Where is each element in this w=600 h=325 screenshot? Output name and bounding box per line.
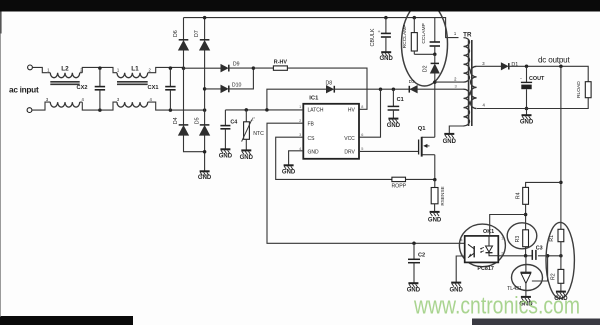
wire ac line2 terminal to L2 xyxy=(32,102,50,110)
svg-text:5: 5 xyxy=(361,147,363,151)
capacitor C1 xyxy=(392,89,394,106)
svg-text:IC1: IC1 xyxy=(309,96,319,102)
svg-text:1: 1 xyxy=(299,105,301,109)
svg-text:GND: GND xyxy=(443,139,457,145)
svg-text:GND: GND xyxy=(428,217,442,223)
diode D6 xyxy=(179,41,189,50)
svg-text:3: 3 xyxy=(117,97,120,102)
svg-text:D2: D2 xyxy=(423,65,429,72)
svg-text:C2: C2 xyxy=(418,252,425,258)
wire VDD pin riser xyxy=(359,89,381,137)
ground C2 xyxy=(408,283,418,287)
svg-text:4: 4 xyxy=(483,102,486,107)
wire line1 to D9 xyxy=(184,67,222,69)
svg-text:FB: FB xyxy=(308,122,315,128)
svg-text:2: 2 xyxy=(299,119,301,123)
svg-text:ROPP: ROPP xyxy=(391,184,406,190)
ground aux winding xyxy=(444,134,454,138)
wire D8 to aux top xyxy=(334,88,463,90)
svg-text:D8: D8 xyxy=(325,80,332,86)
node TL431 ref tap xyxy=(546,254,550,257)
wire aux bottom to ground xyxy=(449,126,463,134)
diode D2 xyxy=(434,54,436,63)
transistor Q1 xyxy=(419,137,435,157)
wire D2 to drain node xyxy=(434,73,436,137)
ground RSENSE xyxy=(430,212,440,216)
svg-text:LATCH: LATCH xyxy=(308,108,324,114)
svg-text:RCCLAMP: RCCLAMP xyxy=(402,24,408,48)
svg-text:3: 3 xyxy=(299,133,301,137)
svg-text:+: + xyxy=(378,30,381,35)
svg-text:3: 3 xyxy=(482,61,485,66)
wire node to R-HV xyxy=(253,67,273,69)
annotation ellipse around R1 R2 xyxy=(546,222,574,298)
node line1 / D6-D4 leg xyxy=(182,66,186,70)
svg-text:RSENSE: RSENSE xyxy=(440,186,445,205)
wire opto LED anode branch xyxy=(490,215,526,235)
resistor RLOAD xyxy=(585,82,591,98)
ground R2 xyxy=(556,292,566,296)
ground U2 xyxy=(521,297,531,301)
diode D8 xyxy=(327,86,334,93)
svg-text:-: - xyxy=(520,76,522,82)
resistor R2 xyxy=(558,269,564,283)
capacitor CX1 xyxy=(169,68,171,87)
wire output positive rail xyxy=(509,66,588,81)
optocoupler phototransistor xyxy=(468,244,474,257)
ground opto emitter xyxy=(451,283,461,287)
svg-text:R4: R4 xyxy=(516,192,522,199)
optocoupler LED light arrows xyxy=(480,247,484,252)
node CX2 bottom xyxy=(98,108,102,112)
wire L2 to CX2 top xyxy=(82,67,117,72)
svg-text:dc output: dc output xyxy=(538,56,570,65)
svg-text:D10: D10 xyxy=(232,83,242,89)
resistor R4 xyxy=(523,187,529,204)
resistor ROPP xyxy=(392,177,406,181)
wire clamp bottom xyxy=(414,53,435,55)
node R3 bottom junction xyxy=(524,254,528,257)
svg-text:L1: L1 xyxy=(131,65,139,72)
svg-text:PC817: PC817 xyxy=(477,266,493,272)
node D8 riser tap xyxy=(265,108,269,112)
svg-text:COUT: COUT xyxy=(529,76,545,82)
resistor RSENSE xyxy=(434,180,436,188)
capacitor C3 xyxy=(532,250,536,260)
node CX1 bottom xyxy=(169,108,173,112)
svg-text:DRV: DRV xyxy=(344,150,355,156)
diode D5 xyxy=(200,126,210,135)
node D7 rail junction xyxy=(203,16,207,20)
ground CBULK xyxy=(381,52,391,56)
wire top bulk rail xyxy=(184,18,459,38)
wire output return rail xyxy=(477,98,588,109)
wire Q1 source to sense node xyxy=(434,155,436,180)
svg-text:NTC: NTC xyxy=(253,131,264,137)
ground C4 xyxy=(220,149,230,153)
svg-text:CX2: CX2 xyxy=(77,85,88,91)
node D9-D10 junction xyxy=(252,66,256,70)
wire D6-D4 vertical leg xyxy=(184,18,205,152)
svg-text:1: 1 xyxy=(47,68,50,73)
wire TL431 ref xyxy=(532,256,548,281)
svg-text:C3: C3 xyxy=(536,246,543,252)
svg-text:t°: t° xyxy=(252,116,255,121)
wire C3 to R1 leg xyxy=(538,255,561,257)
node primary bottom xyxy=(433,80,437,84)
diode D4 xyxy=(179,126,189,135)
svg-text:R2: R2 xyxy=(550,273,556,280)
svg-text:C1: C1 xyxy=(397,97,404,103)
svg-text:D3: D3 xyxy=(409,79,415,84)
svg-text:GND: GND xyxy=(198,175,212,181)
svg-text:R1: R1 xyxy=(549,235,555,242)
choke L1 bottom winding xyxy=(117,102,148,107)
wire secondary to D1 xyxy=(477,65,502,67)
svg-text:CS: CS xyxy=(308,136,316,142)
svg-text:RLOAD: RLOAD xyxy=(576,81,582,98)
node CX1 top xyxy=(169,66,173,70)
bottom right dark bar xyxy=(472,319,600,325)
choke L1 top winding xyxy=(117,73,148,78)
capacitor C2 xyxy=(413,243,415,259)
wire D7-D5 vertical leg xyxy=(204,18,206,172)
svg-text:GND: GND xyxy=(380,56,394,62)
svg-text:HV: HV xyxy=(348,108,356,114)
svg-text:4: 4 xyxy=(150,97,153,102)
resistor RCCLAMP xyxy=(413,18,415,33)
wire opto emitter to ground xyxy=(456,256,465,283)
node CBULK tap xyxy=(384,16,388,20)
node C1 riser xyxy=(392,87,396,91)
diode D3 aux rectifier xyxy=(411,86,418,93)
wire output sense vertical xyxy=(560,66,562,229)
wire CS line xyxy=(276,137,392,179)
left edge line xyxy=(0,12,1,317)
svg-text:6: 6 xyxy=(361,133,363,137)
node D10 tap on line2 leg xyxy=(203,87,207,91)
wire FB line to optocoupler xyxy=(267,123,465,243)
svg-text:3: 3 xyxy=(454,84,457,89)
wire L2 to CX2 bottom xyxy=(82,102,117,110)
top black bar xyxy=(0,0,600,12)
resistor R1 xyxy=(558,229,564,241)
svg-text:1: 1 xyxy=(454,31,457,36)
resistor R3 xyxy=(523,230,529,247)
choke L1 core xyxy=(117,82,148,85)
capacitor C4 xyxy=(224,110,226,126)
wire D10 cathode up to D9 node xyxy=(229,68,254,89)
svg-text:GND: GND xyxy=(240,155,254,161)
thermistor NTC xyxy=(245,110,247,122)
node CS-sense junction xyxy=(433,178,437,182)
svg-text:D1: D1 xyxy=(511,62,518,68)
node line2 / D7-D5 leg xyxy=(203,108,207,112)
svg-text:CX1: CX1 xyxy=(148,85,159,91)
svg-text:VCC: VCC xyxy=(344,136,355,142)
svg-text:D7: D7 xyxy=(194,30,200,37)
svg-text:C4: C4 xyxy=(230,119,237,125)
svg-text:2: 2 xyxy=(149,68,152,73)
ground bridge negative xyxy=(200,171,210,175)
ground COUT xyxy=(526,109,528,116)
svg-text:ac input: ac input xyxy=(9,84,39,94)
wire R4 branch xyxy=(526,182,561,187)
svg-text:TL431: TL431 xyxy=(507,286,522,292)
choke L2 top winding xyxy=(50,73,79,78)
diode D7 xyxy=(200,41,210,50)
svg-text:4: 4 xyxy=(82,97,85,102)
svg-text:GND: GND xyxy=(308,150,320,156)
annotation circle around R3 xyxy=(507,223,537,249)
svg-text:4: 4 xyxy=(460,238,463,243)
transformer TR secondary winding xyxy=(471,66,477,108)
diode D10 xyxy=(205,88,221,90)
svg-text:D5: D5 xyxy=(194,117,200,124)
transformer TR core xyxy=(469,40,472,126)
node R1 bottom junction xyxy=(559,254,563,257)
svg-text:2: 2 xyxy=(454,77,457,82)
resistor R-HV xyxy=(273,66,287,70)
wire C4 rail riser to D8 line xyxy=(267,89,326,110)
node clamp bottom xyxy=(433,53,437,57)
transformer TR aux winding xyxy=(464,89,470,126)
wire drain node to primary pin2 xyxy=(435,81,464,83)
choke L2 bottom winding xyxy=(50,102,79,107)
op-amp controller IC1 box xyxy=(303,104,359,159)
svg-text:D6: D6 xyxy=(173,30,179,37)
wire IC1 GND pin xyxy=(289,151,304,166)
wire ROPP to sense node xyxy=(406,178,435,180)
node clamp tap xyxy=(413,16,417,20)
annotation circle around U2 xyxy=(512,265,543,291)
svg-text:D4: D4 xyxy=(173,117,179,124)
ground IC1 xyxy=(284,165,294,169)
node R4 branch xyxy=(559,181,563,185)
node NTC tap xyxy=(245,108,249,112)
ground C1 xyxy=(388,119,398,123)
svg-text:8: 8 xyxy=(361,105,363,109)
diode D1 xyxy=(501,63,507,69)
wire ac line1 terminal to L2 xyxy=(32,67,47,72)
capacitor CCLAMP xyxy=(434,18,436,42)
svg-text:L2: L2 xyxy=(61,65,69,72)
diode D9 xyxy=(221,65,228,72)
optocoupler OK1 box xyxy=(465,236,499,263)
node C2 tap xyxy=(412,242,416,246)
annotation circle around OK1 xyxy=(459,224,505,267)
svg-text:R-HV: R-HV xyxy=(274,59,288,65)
svg-text:D9: D9 xyxy=(233,62,240,68)
ac input terminal bottom xyxy=(27,108,32,113)
node sense tap xyxy=(559,65,563,69)
svg-text:GND: GND xyxy=(387,123,401,129)
node VDD riser xyxy=(379,87,383,91)
svg-text:3: 3 xyxy=(46,97,49,102)
svg-text:1: 1 xyxy=(117,68,120,73)
ground NTC xyxy=(241,150,251,154)
wire LATCH rail xyxy=(225,109,303,111)
transformer TR primary winding xyxy=(464,38,470,83)
wire D9 cathode to node xyxy=(229,67,254,69)
wire R-HV to HV pin xyxy=(287,68,367,109)
wire DRV to gate xyxy=(359,150,419,152)
node CX2 top xyxy=(98,66,102,70)
node COUT bottom xyxy=(525,107,529,111)
annotation ellipse around clamp xyxy=(402,2,448,86)
choke L2 core xyxy=(50,82,79,85)
capacitor COUT xyxy=(526,66,528,82)
bottom left black bar xyxy=(0,316,133,325)
svg-text:GND: GND xyxy=(219,154,233,160)
optocoupler LED xyxy=(488,236,490,246)
wire LED cathode to divider xyxy=(498,255,532,257)
svg-text:CBULK: CBULK xyxy=(370,28,376,46)
node COUT tap xyxy=(525,65,529,69)
svg-text:CCLAMP: CCLAMP xyxy=(421,23,427,43)
svg-text:Q1: Q1 xyxy=(418,126,427,132)
capacitor CBULK xyxy=(385,18,387,34)
svg-text:www.cntronics.com: www.cntronics.com xyxy=(413,293,580,320)
svg-text:GND: GND xyxy=(520,120,534,126)
svg-text:GND: GND xyxy=(282,170,296,176)
node R4-R3 junction xyxy=(524,213,528,217)
node bridge negative junction xyxy=(203,150,207,154)
svg-text:R3: R3 xyxy=(515,236,521,243)
ac input terminal top xyxy=(28,65,33,70)
svg-text:OK1: OK1 xyxy=(483,229,494,235)
regulator U2 TL431 xyxy=(525,256,527,272)
capacitor CX2 xyxy=(99,68,101,87)
